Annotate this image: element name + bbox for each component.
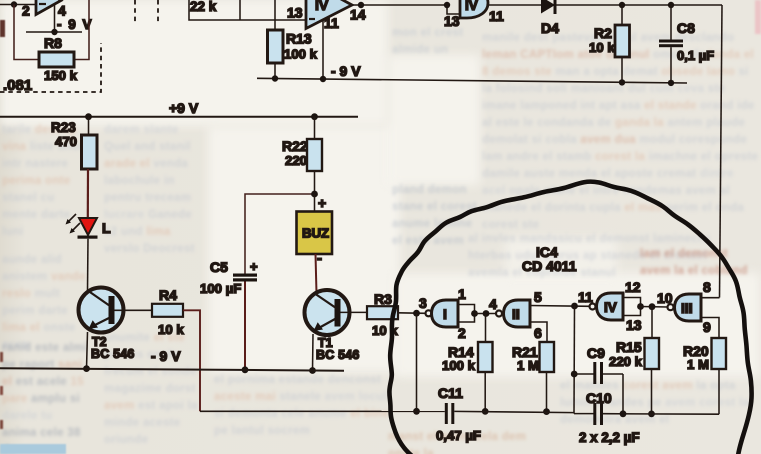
wire: input to op-amp U2 pin 2: [0, 4, 35, 6]
label pin 6: [534, 325, 542, 341]
buzzer BUZ: [297, 194, 333, 267]
LED L: [78, 218, 112, 239]
left column upper: [2, 122, 90, 241]
wire: T1 base to R3: [341, 311, 368, 313]
gate IC4-II (pins 5,6 in / 4 out): [496, 300, 547, 342]
node: U2 pin2 junction: [11, 1, 17, 7]
label pin 8: [703, 279, 711, 295]
svg-text:R2: R2: [594, 25, 612, 41]
wire: T1 emitter to -9V rail: [309, 334, 316, 374]
resistor R20 1M: [683, 338, 726, 414]
wire: R22 node to C5: [245, 194, 315, 274]
gate IC4-III (pins 8,9 in / 10 out): [668, 294, 720, 338]
right edge pink streak: [755, 0, 761, 34]
svg-text:13: 13: [626, 317, 642, 333]
svg-text:C8: C8: [677, 20, 695, 36]
wire: R3 to node 3: [398, 312, 426, 315]
svg-text:1: 1: [458, 286, 466, 302]
svg-text:13: 13: [444, 13, 460, 29]
resistor R23 470: [51, 117, 97, 169]
svg-text:10 k: 10 k: [589, 40, 615, 55]
svg-text:C11: C11: [438, 385, 463, 401]
svg-text:D4: D4: [541, 20, 559, 36]
svg-text:100 µF: 100 µF: [200, 281, 241, 296]
svg-text:2 x 2,2 µF: 2 x 2,2 µF: [579, 430, 640, 445]
resistor R15 220k: [609, 307, 659, 418]
label pin 9: [703, 319, 711, 335]
svg-text:10 k: 10 k: [372, 323, 398, 338]
svg-text:I: I: [443, 306, 447, 322]
wire: LED to T2 collector: [87, 239, 90, 291]
wire: gate I inputs node to gate II output: [475, 310, 497, 317]
svg-text:R8: R8: [44, 35, 62, 51]
svg-text:1 M: 1 M: [517, 358, 539, 373]
resistor R2 10k: [589, 5, 630, 86]
dashed block border: [0, 0, 158, 92]
transistor T2 BC546: [79, 288, 135, 362]
label pin 10: [657, 290, 673, 306]
svg-text:IV: IV: [604, 300, 617, 315]
svg-text:- 9 V: - 9 V: [57, 17, 93, 32]
capacitor C5 100uF: [200, 259, 258, 373]
bottom center faint: [388, 429, 538, 454]
bottom right column: [560, 378, 760, 429]
svg-text:2: 2: [22, 3, 30, 19]
svg-text:12: 12: [625, 279, 641, 295]
svg-text:BC 546: BC 546: [316, 348, 360, 362]
svg-text:L: L: [102, 220, 111, 236]
bottom mid column: [214, 372, 394, 440]
label 22 k: [190, 0, 217, 14]
svg-text:R13: R13: [286, 31, 312, 47]
label U2 pin 4: [58, 3, 66, 19]
label gate pin 11: [489, 8, 504, 24]
-9V rail (lower): [0, 348, 344, 371]
middle column upper: [104, 122, 206, 258]
svg-text:IV: IV: [315, 0, 329, 13]
svg-text:3: 3: [419, 295, 427, 311]
op-amp U1 section IV: [306, 0, 352, 29]
svg-text:100 k: 100 k: [284, 47, 318, 62]
svg-text:13: 13: [287, 5, 303, 21]
wire: T2 emitter to -9V rail: [83, 332, 90, 372]
resistor R21 1M: [512, 342, 554, 415]
label U1 pin 13: [287, 5, 303, 21]
bottom-left blue strip: [0, 444, 66, 454]
transistor T1 BC546: [305, 290, 360, 362]
svg-text:- 9 V: - 9 V: [331, 63, 361, 79]
right big column: [482, 30, 760, 234]
label U1 pin 14: [350, 7, 366, 23]
wire: node 3 down to oscillator line: [413, 313, 420, 414]
svg-text:10 k: 10 k: [158, 322, 184, 337]
-9V stub at U2: [26, 17, 93, 35]
label pin 5: [534, 289, 542, 305]
svg-text:C5: C5: [210, 259, 228, 275]
wire: gate IV inputs node to gate III output: [641, 303, 668, 310]
label pin 4: [489, 296, 497, 312]
left edge dark marks: [0, 20, 5, 37]
wire: gate II pin5 to node 11 and gate IV output: [530, 303, 590, 310]
label pin 2: [458, 325, 466, 341]
svg-text:0,47 µF: 0,47 µF: [436, 428, 481, 443]
resistor R4 10k: [152, 287, 184, 337]
svg-text:6: 6: [534, 325, 542, 341]
label pin 12: [625, 279, 641, 295]
capacitor C11: [436, 385, 481, 443]
svg-text:11: 11: [489, 8, 504, 24]
svg-text:220: 220: [285, 153, 307, 168]
svg-text:9: 9: [703, 319, 711, 335]
wire: right edge vertical (C8 node to gate III pin 8): [720, 5, 723, 298]
svg-text:BC 546: BC 546: [91, 347, 135, 361]
svg-text:II: II: [512, 306, 520, 322]
op-amp U2 (TL081, partial): [36, 0, 61, 15]
resistor R8 150k: [39, 35, 78, 83]
left column lower: [2, 340, 90, 454]
svg-text:R23: R23: [51, 120, 76, 135]
mid top small: [392, 25, 480, 59]
svg-text:8: 8: [703, 279, 711, 295]
wire: oscillator line right of C11: [454, 411, 574, 412]
label pin 1: [458, 286, 466, 302]
right column red run: [640, 246, 760, 280]
resistor R3 10k: [367, 291, 398, 338]
+9V rail: [0, 100, 358, 120]
label 081 (IC type, cut): [3, 77, 32, 94]
wire: T2 base to R4: [114, 309, 152, 311]
capacitor C10: [574, 390, 719, 445]
wire: R4 right, down and to oscillator line (maroon): [183, 310, 200, 411]
svg-text:III: III: [681, 300, 693, 316]
gate IC4-I (pins 1,2 in / 3 out): [426, 300, 478, 327]
svg-text:150 k: 150 k: [44, 68, 78, 83]
label pin 13: [626, 317, 642, 333]
label IC4: [536, 244, 558, 260]
svg-text:11: 11: [324, 15, 339, 31]
svg-text:CD 4011: CD 4011: [522, 258, 577, 274]
svg-text:14: 14: [350, 7, 366, 23]
svg-text:470: 470: [55, 134, 77, 149]
background page tint patches: [0, 0, 388, 126]
svg-text:R15: R15: [616, 339, 642, 355]
wire: R23 to LED (maroon): [87, 169, 89, 218]
gate IC4-IV (pins 12,13 in / 11 out): [590, 293, 644, 320]
label U1 pin 11: [324, 15, 339, 31]
svg-text:BUZ: BUZ: [302, 226, 329, 241]
svg-text:22 k: 22 k: [190, 0, 217, 14]
svg-text:C9: C9: [587, 345, 605, 361]
wire: U1 pin 11 to -9V rail: [322, 19, 324, 79]
wire: oscillator line left of C11: [200, 410, 445, 412]
svg-text:100 k: 100 k: [442, 358, 476, 373]
svg-text:5: 5: [534, 289, 542, 305]
label CD 4011: [522, 258, 577, 274]
diode D4: [541, 0, 559, 36]
svg-text:R3: R3: [374, 291, 392, 307]
left column middle: [2, 252, 90, 354]
svg-text:11: 11: [578, 289, 593, 305]
svg-text:+: +: [318, 195, 326, 211]
capacitor C9: [574, 345, 623, 414]
gate IC3-IV (NAND, cut at top): [460, 0, 488, 18]
hand-drawn marker outline: [389, 182, 751, 454]
svg-text:220 k: 220 k: [609, 354, 643, 369]
svg-text:0,1 µF: 0,1 µF: [677, 48, 714, 63]
capacitor C8 0.1uF: [659, 5, 714, 86]
svg-text:-: -: [317, 250, 322, 267]
svg-text:R22: R22: [282, 138, 308, 154]
svg-text:1 M: 1 M: [687, 357, 709, 372]
-9V rail (upper): [257, 63, 687, 83]
middle column lower: [104, 330, 208, 449]
svg-text:+: +: [250, 259, 258, 274]
node 3: [413, 295, 427, 317]
LED rays: [66, 214, 81, 234]
svg-text:- 9 V: - 9 V: [151, 348, 181, 364]
svg-text:4: 4: [489, 296, 497, 312]
svg-text:+9 V: +9 V: [169, 100, 199, 116]
svg-text:C10: C10: [586, 390, 612, 406]
resistor R13 100k: [268, 0, 318, 79]
inside blob top text: [392, 182, 480, 250]
resistor R22 220: [282, 117, 322, 198]
label pin 11: [578, 289, 593, 305]
svg-text:IV: IV: [465, 0, 478, 13]
label gate pin 13: [444, 13, 460, 29]
wire: node 11 vertical to C9/C10: [571, 306, 578, 414]
svg-text:2: 2: [458, 325, 466, 341]
wire: gate IV output to D4: [488, 4, 541, 6]
svg-text:R4: R4: [159, 287, 177, 303]
wire: feedback loop through R8: [14, 0, 89, 60]
wire: U2 pin 4 to -9V: [54, 4, 56, 32]
wire: BUZ to T1 collector (maroon): [316, 254, 317, 294]
wire: U1 output to gate IV input: [352, 2, 460, 14]
label U2 pin 2: [22, 3, 30, 19]
wire: D4 to R2/C8/right edge: [556, 2, 722, 8]
resistor R14 100k: [442, 314, 493, 415]
resistor 22k leads (cut at top): [189, 0, 306, 20]
